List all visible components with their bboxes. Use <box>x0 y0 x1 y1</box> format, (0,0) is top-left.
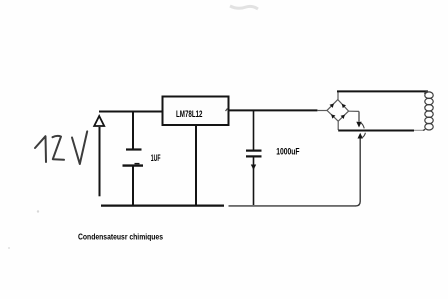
wire to bridge <box>318 110 328 112</box>
diode D4 <box>341 115 345 119</box>
capacitor C1 <box>123 111 144 205</box>
junction arrow upper <box>356 122 361 128</box>
inductor L1 <box>423 91 433 130</box>
pin 3 tick <box>226 109 228 112</box>
wire coil bottom <box>338 130 414 132</box>
polarity arrow C2 <box>251 165 256 171</box>
wire bridge to coil top <box>337 90 428 92</box>
svg-text:1000uF: 1000uF <box>276 147 299 158</box>
regulator U1 <box>163 97 229 126</box>
wire input top <box>99 111 163 113</box>
diode D1 <box>330 103 334 107</box>
capacitor C2 <box>246 111 262 206</box>
wire output <box>229 109 318 111</box>
diode D3 <box>331 114 335 118</box>
wire bottom left <box>101 205 224 207</box>
wire bottom right <box>229 205 357 207</box>
wire right down <box>356 139 360 206</box>
svg-text:1UF: 1UF <box>151 153 161 163</box>
diode D2 <box>342 104 346 108</box>
svg-text:Condensateusr chimiques: Condensateusr chimiques <box>78 231 163 241</box>
pin GND wire <box>195 125 197 205</box>
label 12V <box>35 131 87 164</box>
svg-text:LM78L12: LM78L12 <box>176 109 203 119</box>
bridge rectifier BR1 <box>318 92 359 131</box>
wire right vertex down <box>358 111 360 121</box>
node supply arrow <box>94 116 104 196</box>
junction arrow lower <box>358 133 363 139</box>
